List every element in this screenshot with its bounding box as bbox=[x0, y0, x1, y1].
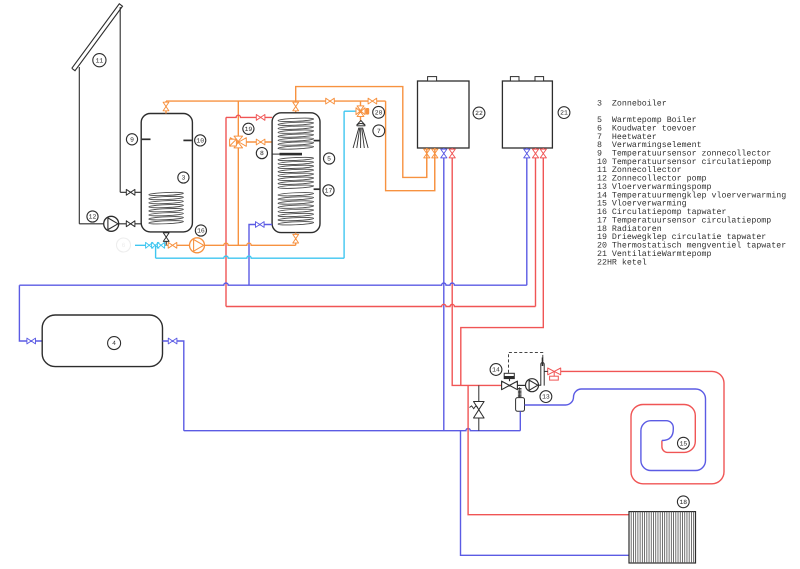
node label 7 bbox=[373, 125, 385, 137]
heating coil inside tank 3 bbox=[149, 192, 184, 196]
node label 15 bbox=[678, 437, 690, 449]
tank 3 drain pipe bbox=[165, 232, 167, 245]
valve on coil top pipe bbox=[126, 189, 135, 195]
svg-text:17: 17 bbox=[325, 188, 333, 195]
shower head 7 bbox=[353, 120, 368, 148]
capillary dashed line valve14 actuator to sensor bbox=[509, 352, 543, 372]
valve on coil bottom pipe bbox=[126, 221, 135, 227]
node label 5 bbox=[324, 153, 335, 164]
pump 13 vloerverwarmingspomp bbox=[526, 379, 539, 392]
pipe red bus (hot distribution) bbox=[226, 304, 536, 306]
node label 10 bbox=[195, 135, 206, 146]
HR ketel 22 bbox=[418, 81, 470, 148]
pipe valve20 riser bbox=[360, 101, 362, 106]
valve cold water 1 bbox=[146, 242, 153, 248]
manual valve on floor heating supply (red) bbox=[544, 368, 561, 380]
node label 3 bbox=[178, 172, 189, 183]
valve unit21 red 2 bbox=[540, 149, 546, 158]
floor heating return spiral (blue) bbox=[525, 389, 706, 471]
pipe blue bus left drop to tank4 bbox=[19, 285, 42, 341]
node label 9 bbox=[126, 134, 137, 145]
svg-text:21: 21 bbox=[560, 110, 568, 117]
node label 6 (faint) bbox=[117, 238, 131, 252]
pipe cold water inlet (cyan) bbox=[135, 244, 166, 246]
ventilatie warmtepomp 21 bbox=[502, 81, 552, 148]
pipe red branch down to radiator supply bbox=[468, 385, 629, 514]
svg-text:15: 15 bbox=[680, 440, 688, 447]
tank 5 middle coil bbox=[278, 157, 314, 162]
valve on tapwater header right bbox=[368, 98, 377, 104]
valve tank4 right bbox=[168, 338, 177, 344]
pipe valve19 to tank5 (orange) bbox=[246, 141, 272, 143]
svg-text:3: 3 bbox=[181, 175, 185, 182]
node label 12 bbox=[87, 211, 98, 222]
pipe valve14 to pump13 bbox=[517, 384, 525, 386]
valve boiler22 blue bbox=[441, 149, 447, 158]
pipe boiler22 blue drop bbox=[443, 148, 445, 431]
radiator 18 bbox=[629, 512, 696, 563]
pipe boiler22 red drop bbox=[452, 148, 501, 385]
valve tank4 left bbox=[27, 338, 36, 344]
pipe collector to coil top bbox=[120, 191, 149, 193]
svg-text:11: 11 bbox=[96, 57, 104, 64]
flexible connector (hatch) below valve bbox=[518, 389, 522, 397]
pump 16 circulatiepomp tapwater bbox=[190, 238, 205, 253]
legend text bbox=[597, 98, 786, 267]
pipe cyan to valve 20 bbox=[344, 110, 356, 112]
pipe tank5 blue connection bbox=[249, 225, 272, 286]
pipe red tapwater top (to tank5) bbox=[225, 117, 227, 306]
tank 5 warmtepomp boiler bbox=[272, 113, 320, 233]
valve before pump 16 bbox=[168, 242, 177, 248]
pipe hot tapwater header (orange y=101) bbox=[166, 100, 386, 102]
node label 21 bbox=[558, 107, 570, 119]
tank 5 bottom riser bbox=[295, 233, 297, 246]
svg-text:22: 22 bbox=[475, 110, 483, 117]
pipe unit21 red drop 1 bbox=[535, 148, 537, 307]
valve unit21 blue bbox=[524, 149, 530, 158]
valve on tank5 top riser bbox=[293, 102, 299, 111]
pipe tank4 right to mixing station bbox=[163, 341, 184, 431]
temperature sensor 10 tick bbox=[183, 139, 191, 141]
pipe collector return (right drop) bbox=[119, 7, 121, 192]
sensor tick 17 bbox=[314, 188, 321, 190]
svg-text:22HR ketel: 22HR ketel bbox=[597, 257, 647, 267]
solar collector 11 bbox=[72, 4, 123, 71]
pipe pump12 discharge to coil bottom bbox=[119, 223, 149, 225]
valve on tank5 blue connection bbox=[256, 222, 265, 228]
svg-text:13: 13 bbox=[542, 394, 550, 401]
floor heating supply spiral (red) bbox=[561, 371, 724, 483]
svg-text:10: 10 bbox=[196, 138, 204, 145]
pipe collector supply (left drop) bbox=[78, 67, 80, 224]
valve unit21 red 1 bbox=[532, 149, 538, 158]
pipe cold water branch down bbox=[155, 245, 157, 258]
node label 16 bbox=[195, 225, 206, 236]
node label 20 bbox=[373, 106, 385, 118]
node label 17 bbox=[323, 185, 334, 196]
pipe radiator return (blue) bbox=[461, 431, 630, 556]
pipe circulation orange to pump16 bbox=[166, 243, 296, 245]
pipe valve19 riser bbox=[237, 101, 239, 137]
svg-text:19: 19 bbox=[245, 126, 253, 133]
tank 3 zonneboiler bbox=[141, 114, 192, 232]
pressure relief valve bbox=[470, 402, 485, 419]
valve cold water 2 bbox=[152, 242, 159, 248]
tank 3 drain valve bbox=[163, 233, 169, 242]
three-way valve 19 driewegklep bbox=[230, 136, 247, 148]
dirt separator vessel bbox=[516, 398, 525, 412]
svg-text:4: 4 bbox=[112, 340, 116, 347]
pipe valve20 to shower bbox=[360, 117, 362, 122]
pump 12 bbox=[104, 216, 119, 231]
pipe red to tank5 top connection bbox=[226, 115, 272, 117]
pressure relief valve line bbox=[478, 385, 480, 430]
valve on tank 3 riser bbox=[163, 102, 169, 111]
pipe cold water to shower (cyan horizontal) bbox=[156, 256, 345, 258]
svg-text:20: 20 bbox=[375, 109, 383, 116]
pipe cyan riser to mixing valve bbox=[343, 111, 345, 258]
pipe vessel to blue return bbox=[519, 411, 521, 430]
pipe tank5 top header (orange y=86.6) bbox=[296, 87, 427, 178]
svg-text:6: 6 bbox=[122, 242, 126, 249]
svg-text:12: 12 bbox=[89, 214, 97, 221]
valve on tapwater header bbox=[326, 98, 335, 104]
node label 18 bbox=[677, 496, 689, 508]
node label 11 bbox=[93, 54, 106, 67]
pipe boiler22 second orange connection bbox=[386, 101, 435, 191]
valve boiler22 orange pipe 2 bbox=[432, 149, 438, 158]
svg-text:9: 9 bbox=[130, 136, 134, 143]
pipe valve19 down to circulation line bbox=[237, 148, 239, 246]
svg-text:8: 8 bbox=[260, 150, 264, 157]
tank 5 top coil bbox=[278, 118, 314, 123]
valve on red tank5 connection bbox=[256, 115, 265, 121]
node label 4 bbox=[108, 337, 121, 350]
svg-text:16: 16 bbox=[197, 228, 205, 235]
pipe pump12 suction bbox=[79, 223, 104, 225]
tank 5 bottom coil bbox=[278, 192, 314, 197]
tank 4 warmtepomp boiler (horizontal) bbox=[42, 315, 162, 367]
heating element 8 bbox=[272, 153, 280, 155]
node label 19 bbox=[243, 123, 254, 134]
svg-text:14: 14 bbox=[492, 367, 500, 374]
valve on valve19-tank5 pipe bbox=[256, 139, 265, 145]
node label 14 bbox=[490, 364, 502, 376]
node label 13 bbox=[540, 391, 552, 403]
pipe pump13 outlet riser (double line) bbox=[539, 358, 545, 386]
valve boiler22 red bbox=[449, 149, 455, 158]
pipe blue bus (cold distribution) bbox=[19, 283, 526, 285]
node label 8 bbox=[256, 148, 267, 159]
svg-text:7: 7 bbox=[377, 128, 381, 135]
svg-text:18: 18 bbox=[679, 499, 687, 506]
node label 22 bbox=[473, 107, 485, 119]
valve boiler22 orange pipe 1 bbox=[424, 149, 430, 158]
pipe unit21 blue drop bbox=[526, 148, 528, 285]
sensor tick top right tank5 bbox=[314, 140, 321, 142]
valve on tank5 bottom riser bbox=[293, 234, 299, 243]
thermostatic mixing valve 20 bbox=[356, 106, 369, 117]
pipe unit21 red drop 2 bbox=[461, 148, 544, 385]
valve cold water 3 bbox=[157, 242, 164, 248]
pipe blue return horizontal y=430.7 bbox=[184, 429, 521, 431]
svg-text:5: 5 bbox=[327, 156, 331, 163]
temperature sensor 9 tick bbox=[142, 138, 151, 140]
three-way mixing valve 14 bbox=[502, 373, 518, 389]
tank 3 top riser (orange) bbox=[165, 101, 167, 113]
svg-text:3 Zonneboiler: 3 Zonneboiler bbox=[597, 98, 667, 108]
